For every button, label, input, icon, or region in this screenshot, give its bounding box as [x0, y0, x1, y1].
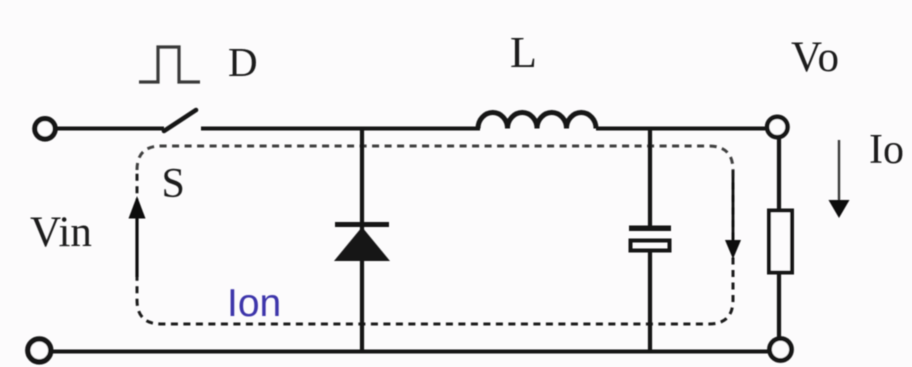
svg-text:L: L: [510, 28, 537, 77]
capacitor C top plate: [629, 226, 671, 232]
wire: output circle to resistor: [777, 137, 781, 212]
svg-text:D: D: [228, 39, 258, 85]
switch S lever: [164, 110, 196, 131]
wire: capacitor branch top: [648, 128, 652, 226]
wire: switch to inductor: [201, 127, 480, 131]
wire: inductor to output: [596, 127, 768, 131]
pulse waveform symbol: [139, 47, 200, 82]
arrow up on loop left side (current direction): [129, 196, 146, 277]
svg-text:Io: Io: [869, 127, 904, 173]
wire: capacitor branch bottom: [648, 252, 652, 352]
wire: diode branch vertical: [360, 128, 364, 352]
svg-text:Vo: Vo: [791, 34, 840, 81]
diode D1 cathode bar: [335, 222, 389, 227]
wire: input to switch: [55, 127, 164, 131]
dashed loop Ion: top edge: [137, 146, 733, 170]
arrow down on loop right side (current direction): [725, 177, 741, 259]
diode D1 triangle: [334, 227, 390, 261]
dashed loop Ion: right/bottom/left edges: [137, 170, 733, 324]
arrow Io: [829, 140, 850, 218]
svg-text:Ion: Ion: [227, 282, 281, 325]
terminal: bottom-left: [28, 339, 51, 362]
terminal: bottom-right: [770, 339, 792, 361]
terminal: output top-right: [767, 117, 787, 137]
svg-text:S: S: [162, 161, 185, 207]
wire: resistor to bottom terminal: [777, 272, 781, 339]
resistor R load: [769, 211, 792, 273]
inductor L coils: [478, 113, 596, 129]
wire: bottom rail: [53, 350, 770, 354]
terminal: input top-left: [35, 119, 55, 139]
capacitor C bottom plate: [631, 241, 670, 251]
svg-text:Vin: Vin: [30, 209, 92, 256]
